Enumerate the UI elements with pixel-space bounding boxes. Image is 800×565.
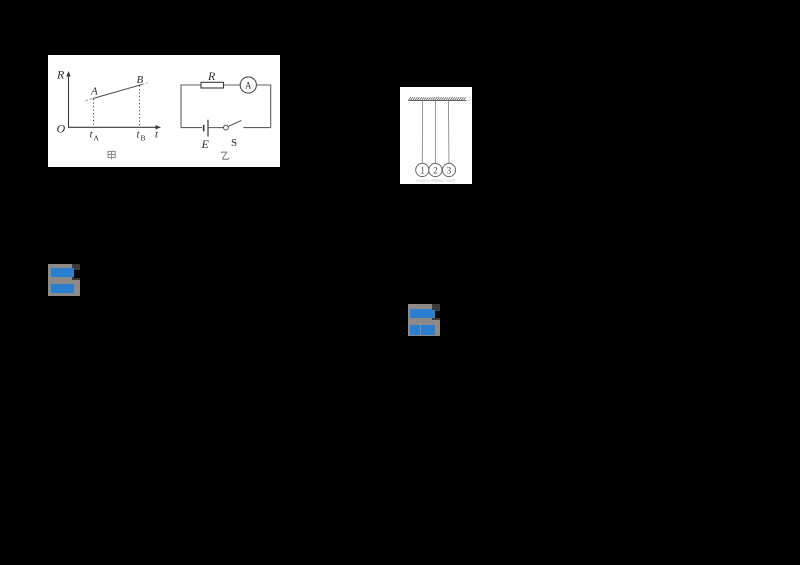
blue tick	[432, 310, 435, 319]
black band	[74, 270, 80, 278]
dashed extensions of line A-B	[86, 99, 94, 101]
wire: battery to switch	[209, 127, 224, 129]
switch S: lever	[228, 120, 241, 126]
y-axis (R)	[68, 75, 70, 128]
x-axis (t)	[68, 126, 157, 128]
svg-text:O: O	[57, 122, 66, 136]
svg-text:A: A	[90, 86, 98, 98]
svg-text:A: A	[245, 81, 252, 91]
ball 3	[442, 163, 455, 176]
svg-text:2: 2	[433, 166, 438, 176]
ball 1	[416, 163, 429, 176]
svg-text:S: S	[231, 137, 237, 149]
faint right edge mark	[469, 97, 471, 105]
svg-text:3: 3	[447, 166, 452, 176]
figure panel 1: R-t graph (甲) and circuit (乙)	[48, 55, 280, 167]
blue bar top	[51, 268, 75, 277]
svg-text:E: E	[201, 137, 210, 151]
blue bar top	[410, 309, 432, 318]
caption 甲 (drawn glyph)	[108, 151, 115, 159]
ceiling hatching	[409, 97, 466, 100]
dotted vertical from B	[139, 86, 141, 128]
ceiling baseline	[408, 99, 466, 101]
svg-text:B: B	[137, 74, 144, 86]
wire: bottom left segment	[181, 127, 202, 129]
line A-B	[93, 85, 142, 99]
string 1	[421, 100, 423, 163]
wire top right + right side	[256, 85, 270, 128]
blue bar bottom left	[410, 325, 420, 335]
svg-text:R: R	[207, 69, 216, 83]
ball 2	[429, 163, 442, 176]
string 2	[434, 100, 436, 163]
figure panel 2: three pendulum balls	[400, 87, 472, 184]
resistor R	[201, 82, 224, 88]
string 3	[447, 100, 450, 163]
wire: circuit top side	[181, 85, 201, 128]
svg-text:1: 1	[420, 166, 425, 176]
svg-text:B: B	[141, 133, 146, 142]
faint ceiling line continuation	[466, 99, 470, 101]
dark corner	[72, 264, 80, 280]
svg-text:t: t	[155, 128, 159, 140]
blue bar bottom	[51, 284, 75, 293]
svg-text:A: A	[94, 133, 100, 142]
wire top middle segment	[224, 84, 241, 86]
answer widget 1	[48, 264, 80, 296]
svg-text:R: R	[56, 68, 65, 82]
wire: switch to right	[243, 127, 271, 129]
blue bar bottom right	[421, 325, 435, 335]
battery E: short plate	[203, 125, 205, 132]
ammeter A1	[240, 77, 256, 93]
dotted vertical from A	[93, 99, 95, 127]
answer widget 2	[408, 304, 440, 336]
battery E: long plate	[207, 120, 209, 137]
faint caption band	[416, 179, 430, 182]
switch S: pivot circle	[224, 125, 229, 130]
black band	[435, 311, 440, 319]
dark corner	[432, 304, 440, 320]
caption 乙 (drawn glyph)	[221, 152, 229, 159]
